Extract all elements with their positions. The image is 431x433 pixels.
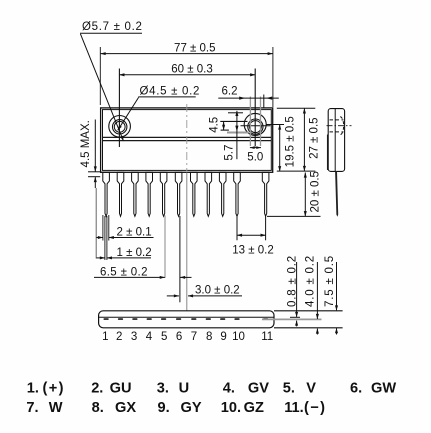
dimension 4.5 MAX. (left) [80, 120, 101, 189]
bottom view pin 6 cross-section [176, 318, 181, 320]
svg-text:6: 6 [176, 331, 182, 343]
dimension 77 +/- 0.5 [100, 42, 273, 107]
side view hidden hole line lower (dashed) [330, 131, 344, 133]
svg-text:GX: GX [115, 400, 136, 416]
front view body inner outline [103, 110, 272, 171]
side view body [327, 109, 344, 172]
svg-text:7.5 ± 0.5: 7.5 ± 0.5 [324, 255, 336, 307]
svg-text:1: 1 [102, 331, 108, 343]
extension line continuing down from 4.5MAX [95, 188, 97, 259]
dimension 7.5 +/- 0.5 [324, 255, 337, 334]
bottom view bottom edge extension [274, 327, 343, 329]
body vertical center line (dash-dot) [186, 104, 188, 171]
left hole inner ring 2 [114, 121, 125, 132]
svg-text:5.0: 5.0 [247, 151, 263, 163]
svg-text:GZ: GZ [244, 400, 264, 416]
svg-text:GY: GY [181, 400, 202, 416]
svg-text:19.5 ± 0.5: 19.5 ± 0.5 [285, 116, 297, 167]
dimension 2 +/- 0.1 (pin width) [96, 215, 153, 241]
dimension 27 +/- 0.5 [277, 108, 321, 171]
pin 2 front view [117, 172, 124, 216]
bottom view pin 9 cross-section [220, 318, 225, 320]
svg-text:(−): (−) [304, 400, 326, 416]
pin 10 front view [234, 172, 241, 216]
svg-text:3: 3 [131, 331, 137, 343]
bottom view pin 11 cross-section [263, 318, 268, 320]
svg-text:4.5 MAX.: 4.5 MAX. [80, 120, 92, 167]
body internal horizontal line upper [103, 136, 272, 138]
svg-text:0.8 ± 0.2: 0.8 ± 0.2 [286, 255, 298, 307]
svg-text:6.5 ± 0.2: 6.5 ± 0.2 [100, 266, 148, 278]
left hole vertical center line [118, 69, 120, 148]
svg-text:1 ± 0.2: 1 ± 0.2 [117, 247, 152, 259]
pin 3 front view [132, 172, 139, 216]
dimension 6.5 +/- 0.2 [94, 216, 192, 279]
center line extension below body [186, 173, 188, 311]
bottom view pin 2 cross-section [118, 318, 123, 320]
svg-text:77 ± 0.5: 77 ± 0.5 [174, 42, 215, 54]
dimension 3.0 +/- 0.2 [167, 285, 242, 297]
svg-text:7: 7 [191, 331, 197, 343]
side view hidden hole line upper (dashed) [330, 119, 344, 121]
dimension 19.5 +/- 0.5 [266, 116, 297, 171]
svg-text:5.: 5. [283, 381, 295, 397]
svg-text:2 ± 0.1: 2 ± 0.1 [117, 227, 152, 239]
dimension 4.0 +/- 0.2 [304, 255, 317, 334]
dimension 5.0 (slot width) [247, 146, 263, 163]
pin 5 front view [160, 172, 167, 216]
svg-text:4: 4 [146, 331, 153, 343]
svg-text:11.: 11. [284, 400, 303, 416]
svg-text:3.0 ± 0.2: 3.0 ± 0.2 [195, 285, 240, 297]
footer pin list line 2 [26, 400, 326, 416]
svg-text:9: 9 [220, 331, 226, 343]
pin 11 front view [262, 172, 269, 216]
right hole inner ring 2 [249, 121, 261, 133]
bottom view outline [99, 311, 274, 328]
svg-text:7.: 7. [26, 400, 38, 416]
right hole slot line right (gray) [260, 97, 262, 147]
dimension 5.7 (hole vertical) [224, 111, 243, 161]
svg-text:V: V [306, 381, 316, 397]
pin 4 front view [146, 172, 153, 216]
pin 6 extension line [179, 216, 181, 302]
bottom view pin 7 cross-section [191, 318, 196, 320]
svg-text:20 ± 0.5: 20 ± 0.5 [310, 171, 322, 212]
svg-text:1.: 1. [27, 381, 39, 397]
dimension 13 +/- 0.2 [232, 216, 273, 256]
svg-text:10.: 10. [221, 400, 241, 416]
svg-text:60 ± 0.3: 60 ± 0.3 [171, 63, 212, 75]
left mounting hole outer circle [109, 116, 131, 138]
svg-text:GV: GV [248, 381, 269, 397]
body internal horizontal line lower [103, 140, 272, 142]
side view hidden arc (dashed) [340, 117, 343, 135]
svg-text:4.0 ± 0.2: 4.0 ± 0.2 [304, 255, 316, 307]
svg-text:2: 2 [116, 331, 122, 343]
svg-text:6.: 6. [350, 381, 362, 397]
svg-text:11: 11 [261, 331, 273, 343]
svg-text:GW: GW [371, 381, 396, 397]
pin 6 front view [175, 172, 182, 216]
bottom view pin 5 cross-section [161, 318, 166, 320]
pin 9 front view [219, 172, 226, 216]
svg-text:8: 8 [206, 331, 212, 343]
footer pin list line 1 [27, 381, 397, 397]
svg-text:Ø5.7 ± 0.2: Ø5.7 ± 0.2 [82, 21, 143, 33]
svg-text:3.: 3. [157, 381, 169, 397]
slot shadow band (gray) [227, 132, 249, 134]
svg-text:27 ± 0.5: 27 ± 0.5 [308, 117, 320, 158]
dimension 4.5 (hole) [209, 117, 248, 133]
right mounting hole outer circle [244, 113, 266, 135]
bottom view pin 8 cross-section [206, 318, 211, 320]
svg-text:U: U [179, 381, 190, 397]
dimension 1 +/- 0.2 (lead thickness) [96, 216, 151, 260]
gray pin leader line [262, 318, 322, 320]
bottom view pin 10 cross-section [234, 318, 239, 320]
svg-text:GU: GU [110, 381, 132, 397]
svg-text:5.7: 5.7 [224, 145, 236, 161]
svg-text:6.2: 6.2 [222, 85, 238, 97]
right hole horizontal center line [241, 125, 271, 127]
bottom view pin 3 cross-section [132, 318, 137, 320]
dimension 0.8 +/- 0.2 [286, 255, 300, 326]
bottom view mid line [99, 316, 274, 318]
svg-text:10: 10 [232, 331, 245, 343]
pin 1 front view [103, 172, 110, 216]
label diameter 5.7 +/- 0.2 with leader [80, 21, 143, 141]
bottom view pin 1 cross-section [104, 318, 109, 320]
label diameter 4.5 +/- 0.2 with leader [118, 86, 200, 131]
svg-text:2.: 2. [91, 381, 103, 397]
svg-text:(+): (+) [43, 381, 65, 397]
left hole inner ring 1 [113, 120, 127, 134]
svg-text:13 ± 0.2: 13 ± 0.2 [232, 244, 273, 256]
right hole vertical center line [254, 69, 256, 147]
pin 8 front view [205, 172, 212, 216]
dimension 60 +/- 0.3 [119, 63, 255, 75]
dimension 20 +/- 0.5 [267, 171, 322, 216]
right hole slot line left (gray) [249, 97, 251, 147]
svg-text:9.: 9. [158, 400, 170, 416]
dimension 6.2 [218, 85, 278, 107]
pin 7 front view [191, 172, 198, 216]
svg-text:5: 5 [161, 331, 167, 343]
svg-text:4.5: 4.5 [209, 117, 221, 133]
svg-text:4.: 4. [223, 381, 235, 397]
svg-text:Ø4.5 ± 0.2: Ø4.5 ± 0.2 [140, 86, 201, 98]
front view body outer outline [101, 108, 273, 172]
right hole inner ring 1 [248, 119, 263, 134]
side view horizontal center line (dash-dot) [327, 125, 352, 127]
bottom view pin 4 cross-section [147, 318, 152, 320]
svg-text:8.: 8. [92, 400, 104, 416]
svg-text:W: W [49, 400, 63, 416]
side view lead [335, 171, 338, 217]
bottom view top edge extension [274, 310, 343, 312]
